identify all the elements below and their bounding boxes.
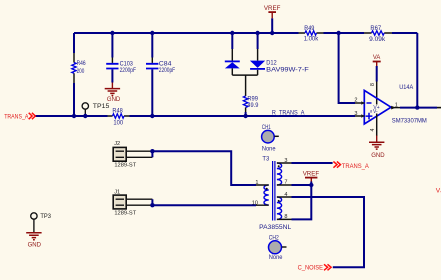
wire transformer pin 3 to TRANS_A (292, 162, 333, 164)
resistor R67 (364, 25, 392, 43)
svg-text:9.09k: 9.09k (369, 36, 386, 43)
svg-text:1: 1 (255, 180, 258, 186)
diode D12 left half (cathode up) (225, 49, 240, 75)
svg-text:100: 100 (113, 120, 123, 127)
resistor R46 (72, 53, 86, 83)
svg-text:VJ: VJ (436, 187, 441, 194)
svg-text:R49: R49 (304, 25, 315, 32)
svg-text:J2: J2 (114, 141, 120, 147)
wire bottom rail (35, 115, 355, 117)
polarity dots (278, 165, 280, 167)
ground below op-amp (369, 136, 385, 160)
channel CH2 (269, 234, 287, 261)
channel CH1 (262, 124, 279, 153)
right winding upper (277, 163, 282, 185)
svg-text:1289-ST: 1289-ST (114, 163, 136, 169)
svg-text:2200pF: 2200pF (159, 67, 175, 74)
svg-text:TP15: TP15 (93, 103, 110, 110)
wire transformer pin 4 to C_NOISE (292, 197, 365, 267)
svg-text:SM73307MM: SM73307MM (392, 117, 427, 124)
svg-text:PA3855NL: PA3855NL (259, 224, 291, 231)
test point TP15 (82, 103, 110, 116)
svg-text:200: 200 (77, 68, 85, 75)
transformer T3 (252, 156, 292, 231)
svg-text:R67: R67 (370, 25, 381, 32)
wire R99 to bottom rail (245, 112, 247, 116)
power port VA (373, 54, 381, 105)
wire output (400, 107, 437, 109)
wire diode branches (232, 33, 257, 49)
power port VREF at transformer (303, 171, 319, 185)
svg-text:TRANS_A: TRANS_A (342, 163, 370, 170)
svg-text:U14A: U14A (399, 84, 414, 91)
svg-text:1289-ST: 1289-ST (114, 210, 136, 216)
svg-text:VREF: VREF (303, 171, 319, 178)
op-amp U14A (354, 83, 426, 132)
svg-text:BAV99W-7-F: BAV99W-7-F (266, 66, 309, 73)
svg-text:GND: GND (28, 241, 42, 248)
wire left branch R46 (73, 33, 75, 116)
svg-text:2: 2 (354, 98, 357, 104)
connector J1 (113, 189, 152, 216)
wire C84 branch (151, 33, 153, 116)
resistor R48 (108, 108, 130, 127)
ground below TP3 (26, 233, 41, 249)
wire feedback right (416, 33, 418, 108)
svg-text:TRANS_A: TRANS_A (4, 114, 29, 121)
resistor R49 (299, 25, 324, 42)
svg-text:VA: VA (373, 54, 381, 61)
wire transformer pin 8 up to VREF junction (292, 185, 312, 219)
svg-text:10: 10 (252, 200, 258, 206)
port C_NOISE (298, 264, 332, 271)
test point TP3 (31, 213, 52, 233)
svg-text:None: None (269, 254, 283, 261)
wire transformer pin 7 to VREF junction (292, 184, 312, 186)
connector J2 (113, 141, 152, 168)
svg-text:8: 8 (370, 83, 376, 86)
core (273, 161, 275, 221)
svg-text:VREF: VREF (264, 5, 281, 12)
port TRANS_A right (333, 162, 369, 171)
right winding lower (277, 197, 282, 219)
diode D12 right half (anode up) (250, 49, 309, 75)
capacitor C84 (146, 58, 175, 75)
power port VREF top (264, 5, 281, 18)
wire C103 branch (111, 33, 113, 83)
svg-text:GND: GND (107, 96, 121, 103)
svg-text:1.00k: 1.00k (304, 36, 319, 43)
svg-text:49.9: 49.9 (247, 102, 258, 109)
diode bottom bar and drop to R99 (232, 75, 257, 96)
svg-text:GND: GND (371, 152, 385, 159)
svg-text:C_NOISE: C_NOISE (298, 265, 324, 272)
svg-text:3: 3 (354, 111, 357, 117)
wire inverting input (339, 33, 355, 103)
wire VREF stem top (271, 18, 273, 33)
left winding (264, 185, 269, 205)
wire top rail (74, 32, 417, 34)
svg-text:R48: R48 (112, 108, 123, 115)
svg-text:TP3: TP3 (40, 213, 51, 220)
svg-text:R_TRANS_A: R_TRANS_A (272, 109, 305, 116)
op-amp negative supply stem (376, 114, 378, 137)
svg-text:8: 8 (284, 214, 287, 220)
ground below C103 (105, 83, 121, 103)
svg-text:3: 3 (284, 158, 287, 164)
svg-text:T3: T3 (262, 156, 269, 163)
svg-text:4: 4 (370, 129, 376, 132)
wire J2 to transformer pin 1 (152, 151, 256, 185)
svg-text:4: 4 (284, 192, 287, 198)
svg-text:None: None (262, 145, 276, 152)
svg-text:R46: R46 (77, 60, 86, 67)
svg-text:CH1: CH1 (262, 124, 271, 131)
wire J1 to transformer pin 10 (152, 199, 256, 205)
port TRANS_A left (4, 113, 35, 121)
resistor R99 (243, 96, 258, 113)
capacitor C103 (106, 58, 136, 75)
svg-text:1: 1 (395, 103, 398, 109)
svg-text:7: 7 (284, 180, 287, 186)
svg-text:2200pF: 2200pF (120, 67, 136, 74)
pin stubs (277, 163, 292, 219)
